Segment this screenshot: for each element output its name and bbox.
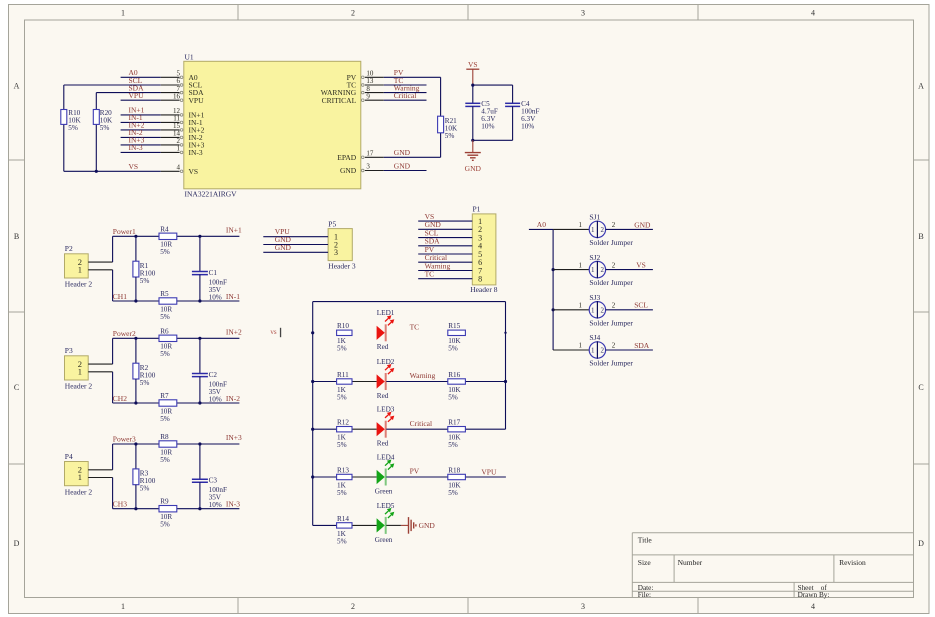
U1 pin 6 SCL	[161, 77, 203, 89]
capacitor C1	[192, 236, 227, 301]
svg-text:Power2: Power2	[113, 329, 136, 338]
U1 pin 10 PV	[347, 70, 384, 82]
svg-text:Solder Jumper: Solder Jumper	[589, 318, 633, 327]
svg-text:5%: 5%	[160, 521, 170, 529]
wire	[121, 121, 161, 123]
svg-text:Number: Number	[678, 558, 703, 567]
wire	[606, 228, 653, 230]
solder jumper SJ2	[553, 253, 633, 287]
svg-text:C: C	[918, 383, 923, 392]
svg-text:1: 1	[591, 266, 595, 274]
svg-text:R8: R8	[160, 433, 169, 441]
resistor R9	[159, 498, 177, 529]
svg-text:R6: R6	[160, 327, 169, 335]
wire	[96, 92, 160, 94]
svg-text:LED2: LED2	[377, 358, 395, 366]
svg-text:Red: Red	[377, 343, 389, 351]
wire	[112, 338, 114, 364]
svg-text:GND: GND	[340, 166, 357, 175]
svg-text:2: 2	[601, 266, 605, 274]
svg-text:IN-3: IN-3	[189, 148, 203, 157]
U1 pin 12 IN+1	[161, 107, 205, 119]
svg-text:B: B	[14, 232, 19, 241]
wire	[386, 381, 448, 383]
svg-text:2: 2	[351, 9, 355, 18]
svg-text:VPU: VPU	[189, 96, 205, 105]
resistor R6	[159, 327, 177, 358]
wire	[113, 337, 159, 339]
svg-text:SJ4: SJ4	[589, 333, 600, 342]
svg-text:5%: 5%	[337, 441, 347, 449]
wire LED bus left	[312, 302, 314, 526]
junction	[311, 475, 314, 478]
svg-text:GND: GND	[634, 220, 651, 229]
junction	[134, 337, 137, 340]
svg-text:10%: 10%	[481, 123, 494, 131]
svg-text:LED5: LED5	[377, 502, 395, 510]
svg-text:GND: GND	[465, 164, 482, 173]
junction	[471, 139, 474, 142]
svg-text:3: 3	[334, 248, 338, 257]
svg-text:R13: R13	[337, 466, 349, 474]
svg-text:TC: TC	[425, 270, 435, 279]
junction	[198, 299, 201, 302]
wire	[386, 524, 401, 526]
svg-text:Red: Red	[377, 440, 389, 448]
svg-text:VPU: VPU	[129, 91, 145, 100]
wire	[112, 270, 114, 301]
svg-text:Size: Size	[638, 558, 652, 567]
junction	[471, 84, 474, 87]
wire	[465, 476, 506, 478]
svg-text:LED1: LED1	[377, 309, 395, 317]
wire	[473, 139, 513, 141]
junction	[552, 308, 555, 311]
svg-text:R4: R4	[160, 225, 169, 233]
title block	[632, 533, 913, 599]
svg-text:D: D	[918, 539, 924, 548]
junction	[552, 268, 555, 271]
svg-text:5%: 5%	[337, 537, 347, 545]
U1 pin 15 IN+2	[161, 122, 205, 134]
junction	[134, 235, 137, 238]
svg-text:5%: 5%	[448, 393, 458, 401]
U1 pin 1 IN-3	[161, 145, 203, 157]
resistor R3	[133, 444, 156, 509]
wire	[384, 156, 441, 158]
svg-text:2: 2	[612, 302, 616, 310]
svg-text:C3: C3	[209, 477, 218, 485]
P1 pin 2 GND	[418, 220, 482, 234]
svg-text:2: 2	[612, 261, 616, 269]
P1 pin 3 SCL	[418, 228, 482, 242]
svg-text:P2: P2	[65, 244, 73, 253]
svg-text:LED4: LED4	[377, 453, 395, 461]
svg-text:GND: GND	[419, 521, 436, 530]
svg-text:IN+1: IN+1	[226, 225, 242, 234]
svg-text:VS: VS	[468, 60, 478, 69]
U1 pin 16 VPU	[161, 92, 204, 104]
svg-text:R14: R14	[337, 515, 349, 523]
resistor R13	[337, 466, 352, 497]
capacitor C5	[465, 85, 498, 140]
power port VS	[466, 60, 479, 85]
svg-text:IN-3: IN-3	[129, 143, 143, 152]
wire	[606, 309, 653, 311]
ground GND (LED5)	[401, 517, 436, 534]
wire	[384, 76, 441, 78]
svg-text:EPAD: EPAD	[337, 153, 356, 162]
svg-text:2: 2	[601, 306, 605, 314]
svg-text:Drawn By:: Drawn By:	[798, 591, 830, 599]
svg-text:Header 2: Header 2	[65, 487, 93, 496]
op-amp U1 INA3221AIRGV body	[184, 52, 361, 198]
wire	[606, 269, 653, 271]
LED LED2 Red	[377, 358, 395, 400]
svg-text:5%: 5%	[448, 345, 458, 353]
svg-text:GND: GND	[275, 243, 292, 252]
wire	[64, 84, 161, 86]
connector P4 Header 2	[65, 452, 113, 496]
resistor R11	[337, 371, 352, 402]
wire LED bus top	[313, 301, 506, 303]
wire	[113, 402, 159, 404]
svg-text:5%: 5%	[100, 124, 110, 132]
wire	[384, 84, 427, 86]
resistor R10	[337, 322, 352, 353]
junction	[504, 380, 507, 383]
U1 pin 4 VS	[161, 164, 198, 176]
svg-text:1: 1	[591, 226, 595, 234]
junction	[198, 235, 201, 238]
svg-text:P5: P5	[328, 219, 336, 228]
svg-text:A: A	[918, 82, 924, 91]
svg-text:A0: A0	[537, 220, 546, 229]
junction	[198, 507, 201, 510]
wire	[313, 381, 337, 383]
text cursor artifact vs	[270, 328, 281, 337]
svg-text:2: 2	[601, 226, 605, 234]
svg-text:2: 2	[612, 342, 616, 350]
svg-text:4: 4	[177, 164, 181, 172]
resistor R10	[61, 85, 82, 171]
svg-text:10%: 10%	[209, 501, 222, 509]
junction	[134, 401, 137, 404]
svg-text:INA3221AIRGV: INA3221AIRGV	[185, 189, 238, 198]
svg-text:3: 3	[366, 163, 370, 171]
svg-text:1: 1	[591, 347, 595, 355]
P1 pin 5 PV	[418, 245, 482, 259]
capacitor C3	[192, 444, 227, 509]
wire	[352, 381, 377, 383]
svg-text:P4: P4	[65, 452, 73, 461]
U1 pin 5 A0	[161, 70, 198, 82]
connector P1 Header 8	[472, 205, 496, 285]
wire	[121, 114, 161, 116]
svg-text:VS: VS	[636, 261, 646, 270]
resistor R1	[133, 236, 156, 301]
wire	[112, 236, 114, 262]
connector P5 Header 3	[328, 219, 356, 270]
svg-text:Solder Jumper: Solder Jumper	[589, 278, 633, 287]
U1 pin 11 IN-1	[161, 115, 203, 127]
junction	[134, 442, 137, 445]
solder jumper SJ3	[553, 293, 633, 327]
svg-text:C2: C2	[209, 371, 218, 379]
svg-text:1: 1	[177, 145, 181, 153]
resistor R18	[448, 466, 466, 497]
svg-text:D: D	[14, 539, 20, 548]
svg-text:Green: Green	[375, 536, 393, 544]
wire	[121, 151, 161, 153]
junction	[198, 401, 201, 404]
connector P3 Header 2	[65, 346, 113, 390]
wire	[465, 428, 505, 430]
svg-text:1: 1	[578, 221, 582, 229]
wire	[64, 170, 161, 172]
wire	[384, 170, 427, 172]
svg-text:vs: vs	[270, 328, 277, 336]
P1 pin 8 TC	[418, 270, 482, 284]
wire	[121, 99, 161, 101]
wire	[177, 443, 240, 445]
svg-text:CH3: CH3	[113, 500, 127, 509]
wire	[386, 476, 448, 478]
svg-text:SCL: SCL	[634, 301, 648, 310]
resistor R4	[159, 225, 177, 256]
wire	[384, 92, 427, 94]
wire	[112, 444, 114, 470]
wire	[177, 402, 240, 404]
svg-text:1: 1	[121, 9, 125, 18]
svg-text:2: 2	[601, 347, 605, 355]
wire	[177, 235, 240, 237]
svg-text:IN+3: IN+3	[226, 433, 242, 442]
svg-text:Critical: Critical	[410, 419, 433, 428]
resistor R16	[448, 371, 466, 402]
wire	[263, 244, 328, 246]
wire LED bus right	[505, 302, 507, 430]
svg-text:VPU: VPU	[481, 467, 497, 476]
svg-text:P3: P3	[65, 346, 73, 355]
wire	[121, 129, 161, 131]
U1 pin 9 CRITICAL	[322, 92, 384, 104]
svg-text:5%: 5%	[160, 248, 170, 256]
svg-text:PV: PV	[410, 467, 420, 476]
svg-text:LED3: LED3	[377, 406, 395, 414]
svg-text:CH2: CH2	[113, 394, 127, 403]
wire	[529, 228, 553, 230]
junction	[95, 170, 98, 173]
U1 pin 2 IN+3	[161, 137, 205, 149]
svg-text:R17: R17	[448, 419, 460, 427]
svg-text:Header 2: Header 2	[65, 280, 93, 289]
LED LED4 Green	[375, 453, 395, 495]
connector P2 Header 2	[65, 244, 113, 288]
U1 pin 8 WARNING	[321, 85, 384, 97]
svg-text:1: 1	[78, 472, 82, 482]
LED LED1 Red	[377, 309, 395, 351]
svg-text:SJ2: SJ2	[589, 253, 600, 262]
solder jumper SJ1	[553, 213, 633, 247]
svg-text:17: 17	[366, 150, 374, 158]
svg-text:R12: R12	[337, 419, 349, 427]
wire	[121, 76, 161, 78]
svg-text:VS: VS	[129, 162, 139, 171]
svg-text:Header 3: Header 3	[328, 262, 356, 271]
svg-text:R5: R5	[160, 290, 169, 298]
svg-text:B: B	[918, 232, 923, 241]
svg-text:10%: 10%	[521, 123, 534, 131]
resistor R12	[337, 419, 352, 450]
U1 pin 3 GND	[340, 163, 384, 175]
svg-text:GND: GND	[394, 148, 411, 157]
svg-text:2: 2	[351, 602, 355, 611]
capacitor C4	[473, 85, 540, 140]
svg-text:5%: 5%	[160, 350, 170, 358]
junction	[134, 299, 137, 302]
svg-text:2: 2	[612, 221, 616, 229]
svg-text:5%: 5%	[160, 415, 170, 423]
svg-text:5%: 5%	[337, 489, 347, 497]
junction	[311, 428, 314, 431]
wire	[352, 428, 377, 430]
resistor R7	[159, 392, 177, 423]
svg-text:5%: 5%	[160, 313, 170, 321]
wire	[177, 508, 240, 510]
wire	[384, 99, 427, 101]
resistor R2	[133, 338, 156, 403]
svg-text:R7: R7	[160, 392, 169, 400]
svg-text:1: 1	[121, 602, 125, 611]
resistor R20	[93, 93, 113, 172]
svg-text:Title: Title	[638, 536, 653, 545]
ground GND (top)	[465, 140, 482, 173]
svg-text:CH1: CH1	[113, 292, 127, 301]
svg-text:R15: R15	[448, 322, 460, 330]
wire	[177, 300, 240, 302]
wire	[386, 428, 448, 430]
svg-text:5%: 5%	[337, 393, 347, 401]
svg-text:File:: File:	[638, 591, 651, 599]
wire	[112, 478, 114, 509]
resistor R21	[438, 77, 458, 157]
wire	[121, 144, 161, 146]
svg-text:5%: 5%	[140, 277, 150, 285]
wire	[121, 136, 161, 138]
svg-text:R11: R11	[337, 371, 349, 379]
svg-text:R18: R18	[448, 466, 460, 474]
svg-text:4: 4	[811, 9, 815, 18]
svg-text:Revision: Revision	[839, 558, 866, 567]
svg-text:Red: Red	[377, 392, 389, 400]
svg-text:SJ1: SJ1	[589, 213, 600, 222]
svg-text:3: 3	[581, 9, 585, 18]
wire	[113, 508, 159, 510]
svg-text:A: A	[14, 82, 20, 91]
svg-text:1: 1	[78, 367, 82, 377]
wire	[313, 524, 337, 526]
wire	[313, 476, 337, 478]
resistor R17	[448, 419, 466, 450]
svg-text:5%: 5%	[448, 489, 458, 497]
svg-text:4: 4	[811, 602, 815, 611]
svg-text:SDA: SDA	[634, 341, 650, 350]
junction	[198, 337, 201, 340]
wire	[113, 300, 159, 302]
wire	[112, 372, 114, 403]
svg-text:Power1: Power1	[113, 227, 136, 236]
LED LED5 Green	[375, 502, 395, 544]
U1 pin 14 IN-2	[161, 130, 203, 142]
svg-text:U1: U1	[185, 52, 194, 61]
svg-text:IN-2: IN-2	[226, 394, 240, 403]
junction	[311, 331, 314, 334]
svg-text:P1: P1	[473, 205, 481, 214]
svg-text:10%: 10%	[209, 293, 222, 301]
junction	[311, 380, 314, 383]
wire	[606, 349, 653, 351]
capacitor C2	[192, 338, 227, 403]
svg-text:Warning: Warning	[410, 371, 436, 380]
resistor R8	[159, 433, 177, 464]
wire	[113, 443, 159, 445]
svg-text:1: 1	[578, 302, 582, 310]
svg-text:IN-3: IN-3	[226, 500, 240, 509]
svg-text:1: 1	[591, 306, 595, 314]
P1 pin 1 VS	[418, 212, 482, 226]
svg-text:C: C	[14, 383, 19, 392]
resistor R14	[337, 515, 352, 546]
svg-text:3: 3	[581, 602, 585, 611]
svg-text:GND: GND	[394, 161, 411, 170]
LED LED3 Red	[377, 406, 395, 448]
P1 pin 7 Warning	[418, 261, 482, 275]
svg-text:CRITICAL: CRITICAL	[322, 96, 357, 105]
P1 pin 4 SDA	[418, 237, 482, 251]
svg-text:R9: R9	[160, 498, 169, 506]
svg-text:10%: 10%	[209, 395, 222, 403]
svg-text:R16: R16	[448, 371, 460, 379]
svg-text:TC: TC	[410, 322, 420, 331]
svg-text:C1: C1	[209, 269, 218, 277]
svg-text:Header 2: Header 2	[65, 382, 93, 391]
svg-text:5%: 5%	[140, 379, 150, 387]
wire A0 bus	[552, 229, 554, 350]
svg-text:5%: 5%	[160, 456, 170, 464]
wire	[177, 337, 240, 339]
P1 pin 6 Critical	[418, 253, 482, 267]
U1 pin 13 TC	[347, 77, 384, 89]
svg-text:5%: 5%	[448, 441, 458, 449]
svg-text:Green: Green	[375, 487, 393, 495]
svg-text:IN-1: IN-1	[226, 292, 240, 301]
svg-text:5%: 5%	[445, 132, 455, 140]
U1 pin 7 SDA	[161, 85, 204, 97]
wire	[473, 84, 513, 86]
svg-text:Solder Jumper: Solder Jumper	[589, 359, 633, 368]
solder jumper SJ4	[553, 333, 633, 367]
wire	[465, 381, 505, 383]
junction	[134, 507, 137, 510]
wire	[352, 476, 377, 478]
svg-text:SJ3: SJ3	[589, 293, 600, 302]
svg-text:5%: 5%	[337, 345, 347, 353]
svg-text:1: 1	[578, 342, 582, 350]
svg-text:16: 16	[173, 92, 181, 100]
svg-text:IN+2: IN+2	[226, 327, 242, 336]
svg-text:1: 1	[578, 261, 582, 269]
